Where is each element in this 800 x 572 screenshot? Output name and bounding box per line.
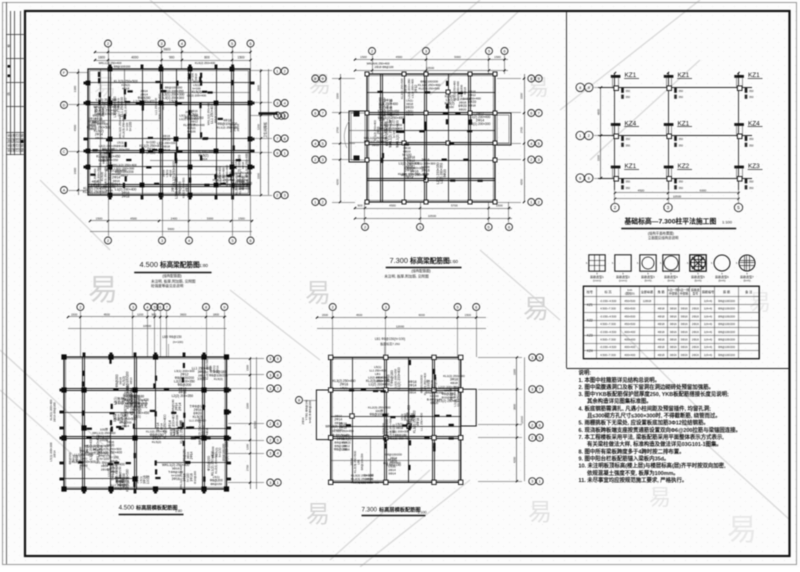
svg-text:350: 350 bbox=[626, 143, 631, 147]
svg-text:-0.030~4.500: -0.030~4.500 bbox=[600, 345, 617, 349]
svg-text:450×500: 450×500 bbox=[624, 307, 635, 311]
svg-text:3600: 3600 bbox=[180, 313, 187, 317]
svg-text:1:80: 1:80 bbox=[175, 509, 182, 513]
svg-text:WKL1(2) 250×400: WKL1(2) 250×400 bbox=[244, 153, 248, 178]
svg-text:5: 5 bbox=[154, 305, 156, 309]
svg-text:8: 8 bbox=[298, 398, 300, 402]
svg-text:6: 6 bbox=[314, 111, 316, 115]
svg-text:审定图号日期: 审定图号日期 bbox=[7, 144, 23, 148]
svg-text:1: 1 bbox=[277, 481, 279, 485]
svg-text:450×500: 450×500 bbox=[624, 299, 635, 303]
svg-text:5: 5 bbox=[231, 42, 233, 46]
svg-text:L1(2) 200×400: L1(2) 200×400 bbox=[187, 93, 206, 97]
svg-text:标高层模板配筋图: 标高层模板配筋图 bbox=[135, 503, 178, 511]
svg-text:1800: 1800 bbox=[213, 313, 220, 317]
svg-text:L2(2) 200×350: L2(2) 200×350 bbox=[225, 441, 229, 463]
svg-text:4200: 4200 bbox=[520, 178, 524, 185]
svg-text:Φ8@100/200: Φ8@100/200 bbox=[718, 299, 735, 303]
svg-text:2Φ16: 2Φ16 bbox=[692, 353, 699, 357]
svg-text:1(4×4): 1(4×4) bbox=[704, 353, 712, 357]
svg-text:易: 易 bbox=[528, 499, 552, 526]
svg-text:8. 图中所有梁板跨度多于4跨时按二排布置。: 8. 图中所有梁板跨度多于4跨时按二排布置。 bbox=[579, 447, 685, 455]
svg-text:4.500~7.300: 4.500~7.300 bbox=[600, 337, 616, 341]
svg-text:2Φ16: 2Φ16 bbox=[692, 345, 699, 349]
svg-text:Φ8@100/200: Φ8@100/200 bbox=[124, 408, 128, 427]
svg-text:3Φ18: 3Φ18 bbox=[162, 148, 170, 152]
svg-text:5: 5 bbox=[322, 142, 324, 146]
svg-text:12000: 12000 bbox=[396, 325, 405, 329]
svg-text:3: 3 bbox=[269, 357, 271, 361]
svg-text:2: 2 bbox=[284, 69, 286, 73]
svg-text:易: 易 bbox=[306, 501, 330, 528]
svg-text:Φ8@200: Φ8@200 bbox=[334, 447, 348, 451]
svg-text:4500: 4500 bbox=[396, 55, 403, 59]
svg-text:7: 7 bbox=[166, 305, 168, 309]
svg-text:WKL1(2) 250×400: WKL1(2) 250×400 bbox=[84, 451, 109, 455]
svg-text:KL5(2): KL5(2) bbox=[152, 440, 161, 444]
svg-text:3600: 3600 bbox=[512, 404, 516, 410]
svg-text:3Φ16: 3Φ16 bbox=[670, 330, 677, 334]
svg-text:4Φ18: 4Φ18 bbox=[658, 314, 665, 318]
svg-text:3. 图中YKB板配筋保护层厚度250, YKB板配筋搭接长: 3. 图中YKB板配筋保护层厚度250, YKB板配筋搭接长度见说明; bbox=[579, 390, 730, 398]
svg-text:箍 筋: 箍 筋 bbox=[723, 289, 730, 294]
svg-text:4500: 4500 bbox=[389, 204, 396, 208]
svg-text:3Φ16: 3Φ16 bbox=[681, 322, 688, 326]
svg-text:900: 900 bbox=[169, 56, 175, 60]
svg-text:9. 图中阳台栏板配筋锚入梁板内35d。: 9. 图中阳台栏板配筋锚入梁板内35d。 bbox=[579, 455, 670, 463]
svg-text:4: 4 bbox=[284, 101, 286, 105]
svg-text:5: 5 bbox=[538, 142, 540, 146]
svg-text:10500: 10500 bbox=[253, 421, 257, 429]
svg-text:A: A bbox=[63, 188, 66, 192]
svg-text:4Φ18: 4Φ18 bbox=[463, 87, 467, 95]
svg-text:350: 350 bbox=[679, 137, 684, 141]
svg-text:3Φ16: 3Φ16 bbox=[681, 314, 688, 318]
svg-text:350: 350 bbox=[679, 186, 684, 190]
svg-text:3: 3 bbox=[322, 158, 324, 162]
svg-text:易: 易 bbox=[305, 278, 331, 308]
svg-text:4Φ18: 4Φ18 bbox=[468, 104, 476, 108]
svg-text:未注明, 板厚,附加筋, 见附图: 未注明, 板厚,附加筋, 见附图 bbox=[384, 273, 429, 278]
svg-text:5700: 5700 bbox=[451, 204, 458, 208]
svg-text:400×400: 400×400 bbox=[624, 330, 635, 334]
svg-text:(m×n): (m×n) bbox=[619, 279, 627, 283]
svg-text:3Φ14: 3Φ14 bbox=[409, 391, 416, 395]
svg-text:4Φ18: 4Φ18 bbox=[375, 386, 383, 390]
svg-text:Φ8@100/200: Φ8@100/200 bbox=[718, 353, 735, 357]
column layout plan top-right bbox=[614, 73, 616, 190]
svg-text:3: 3 bbox=[419, 225, 421, 229]
svg-text:8: 8 bbox=[205, 305, 207, 309]
svg-text:(h=100): (h=100) bbox=[173, 340, 183, 344]
svg-text:9: 9 bbox=[276, 151, 278, 155]
svg-text:350: 350 bbox=[749, 180, 754, 184]
svg-text:3300: 3300 bbox=[597, 154, 601, 161]
svg-text:2Φ16: 2Φ16 bbox=[692, 330, 699, 334]
svg-text:5: 5 bbox=[277, 438, 279, 442]
svg-text:2Φ16: 2Φ16 bbox=[692, 337, 699, 341]
svg-text:350: 350 bbox=[626, 89, 631, 93]
svg-text:3: 3 bbox=[161, 239, 163, 243]
svg-text:1: 1 bbox=[284, 151, 286, 155]
svg-text:2Φ12: 2Φ12 bbox=[95, 136, 103, 140]
svg-text:4Φ18: 4Φ18 bbox=[658, 322, 665, 326]
svg-text:3: 3 bbox=[269, 373, 271, 377]
svg-text:KZ4: KZ4 bbox=[587, 349, 593, 353]
svg-text:7: 7 bbox=[276, 137, 278, 141]
svg-text:L1(2) 200×400: L1(2) 200×400 bbox=[123, 97, 127, 116]
right column partition bbox=[566, 11, 568, 368]
svg-text:350: 350 bbox=[749, 186, 754, 190]
svg-text:2: 2 bbox=[531, 436, 533, 440]
svg-text:4: 4 bbox=[181, 42, 183, 46]
svg-text:1500: 1500 bbox=[237, 56, 244, 60]
svg-text:柱号: 柱号 bbox=[587, 289, 593, 294]
svg-text:350: 350 bbox=[626, 186, 631, 190]
svg-text:4Φ18: 4Φ18 bbox=[658, 353, 665, 357]
svg-text:2Φ12: 2Φ12 bbox=[101, 158, 109, 162]
svg-text:4Φ18: 4Φ18 bbox=[658, 345, 665, 349]
svg-text:3600: 3600 bbox=[73, 167, 77, 174]
svg-text:2Φ16: 2Φ16 bbox=[692, 307, 699, 311]
svg-text:L2(2) 200×350: L2(2) 200×350 bbox=[172, 394, 194, 398]
svg-text:h=90 B:Φ8@200: h=90 B:Φ8@200 bbox=[308, 400, 312, 423]
svg-text:3: 3 bbox=[132, 305, 134, 309]
svg-text:易: 易 bbox=[94, 75, 116, 100]
svg-text:3Φ16: 3Φ16 bbox=[670, 353, 677, 357]
svg-text:6. 现浇板跨板端支座按贯通筋设置双向Φ6@200拉筋与梁锚: 6. 现浇板跨板端支座按贯通筋设置双向Φ6@200拉筋与梁锚固连接。 bbox=[579, 426, 741, 434]
svg-text:h=100: h=100 bbox=[129, 122, 133, 131]
svg-text:3300: 3300 bbox=[246, 403, 250, 409]
svg-text:KL1(2) 250×400: KL1(2) 250×400 bbox=[389, 436, 410, 440]
svg-text:C: C bbox=[63, 150, 66, 154]
svg-text:1(4×4): 1(4×4) bbox=[704, 345, 712, 349]
svg-text:3300: 3300 bbox=[336, 92, 340, 99]
svg-text:(圆柱D): (圆柱D) bbox=[625, 290, 635, 295]
svg-text:L1(2) 200×400: L1(2) 200×400 bbox=[397, 367, 401, 389]
svg-text:易: 易 bbox=[749, 290, 771, 315]
svg-text:易: 易 bbox=[88, 274, 118, 307]
svg-text:6Φ20: 6Φ20 bbox=[459, 107, 467, 111]
svg-text:KL1(2) 250×400: KL1(2) 250×400 bbox=[172, 161, 176, 185]
svg-text:4Φ18: 4Φ18 bbox=[245, 179, 249, 187]
svg-text:KZ2: KZ2 bbox=[587, 318, 593, 322]
svg-text:3Φ16: 3Φ16 bbox=[105, 189, 113, 193]
svg-text:6: 6 bbox=[475, 305, 477, 309]
svg-text:11. 未尽事宜均应按规范施工要求, 严格执行。: 11. 未尽事宜均应按规范施工要求, 严格执行。 bbox=[579, 476, 688, 484]
svg-text:3: 3 bbox=[531, 356, 533, 360]
svg-text:2Φ12: 2Φ12 bbox=[120, 173, 128, 177]
title strip bbox=[10, 11, 12, 155]
svg-text:5: 5 bbox=[231, 239, 233, 243]
svg-text:7: 7 bbox=[277, 387, 279, 391]
svg-text:8: 8 bbox=[314, 77, 316, 81]
svg-text:易: 易 bbox=[523, 294, 549, 324]
svg-text:其余构造详见图集标准图。: 其余构造详见图集标准图。 bbox=[587, 397, 652, 405]
plan4 bottom-middle 7.300 slab plan bbox=[329, 304, 336, 311]
svg-text:3Φ16: 3Φ16 bbox=[681, 307, 688, 311]
svg-text:2: 2 bbox=[269, 422, 271, 426]
svg-text:10500: 10500 bbox=[428, 214, 437, 218]
svg-text:350: 350 bbox=[626, 95, 631, 99]
svg-text:Φ10@200: Φ10@200 bbox=[193, 470, 197, 484]
svg-text:450×500: 450×500 bbox=[624, 322, 635, 326]
svg-text:标高层模板配筋图: 标高层模板配筋图 bbox=[378, 506, 421, 514]
svg-text:1(4×4): 1(4×4) bbox=[704, 330, 712, 334]
svg-text:(b×h): (b×h) bbox=[743, 279, 750, 283]
svg-text:KL3(2) 250×450: KL3(2) 250×450 bbox=[108, 149, 112, 170]
svg-text:10500: 10500 bbox=[673, 194, 682, 198]
svg-text:Φ8@100/200: Φ8@100/200 bbox=[360, 453, 364, 471]
svg-text:5: 5 bbox=[488, 225, 490, 229]
svg-text:1:80: 1:80 bbox=[199, 263, 208, 268]
svg-text:L5(1): L5(1) bbox=[133, 414, 140, 418]
svg-text:1: 1 bbox=[579, 134, 581, 138]
svg-text:L5(1): L5(1) bbox=[340, 386, 347, 390]
svg-text:LL1 250×400: LL1 250×400 bbox=[419, 412, 423, 430]
svg-text:2: 2 bbox=[531, 423, 533, 427]
svg-text:3: 3 bbox=[531, 388, 533, 392]
svg-text:中部筋: 中部筋 bbox=[669, 290, 678, 295]
svg-text:全部纵筋: 全部纵筋 bbox=[641, 289, 653, 294]
svg-text:1500: 1500 bbox=[360, 55, 367, 59]
svg-text:8: 8 bbox=[277, 373, 279, 377]
svg-text:h=100: h=100 bbox=[334, 428, 343, 432]
column section symbols bbox=[589, 255, 605, 271]
svg-text:6: 6 bbox=[277, 422, 279, 426]
svg-text:Φ8@100/200: Φ8@100/200 bbox=[718, 330, 735, 334]
svg-text:6: 6 bbox=[508, 225, 510, 229]
svg-text:型号: 型号 bbox=[692, 290, 698, 295]
svg-text:600: 600 bbox=[204, 56, 210, 60]
svg-text:6: 6 bbox=[159, 305, 161, 309]
svg-text:KZ1: KZ1 bbox=[678, 72, 690, 79]
svg-text:1(4×4): 1(4×4) bbox=[704, 337, 712, 341]
svg-text:1: 1 bbox=[530, 200, 532, 204]
svg-text:3Φ16: 3Φ16 bbox=[670, 314, 677, 318]
svg-text:2: 2 bbox=[276, 194, 278, 198]
svg-text:(结构配筋图): (结构配筋图) bbox=[162, 273, 181, 278]
svg-text:2: 2 bbox=[107, 42, 109, 46]
svg-text:KL5(2): KL5(2) bbox=[214, 377, 223, 381]
svg-text:350: 350 bbox=[679, 180, 684, 184]
svg-text:6Φ20: 6Φ20 bbox=[80, 463, 88, 467]
svg-text:4: 4 bbox=[188, 239, 190, 243]
svg-text:8: 8 bbox=[284, 137, 286, 141]
svg-text:审定图号日期: 审定图号日期 bbox=[7, 139, 23, 143]
svg-text:角 筋: 角 筋 bbox=[658, 289, 665, 294]
svg-text:4: 4 bbox=[530, 142, 532, 146]
svg-text:说明:: 说明: bbox=[579, 369, 592, 377]
svg-text:4800: 4800 bbox=[597, 108, 601, 115]
svg-text:8: 8 bbox=[530, 77, 532, 81]
svg-text:7: 7 bbox=[538, 111, 540, 115]
svg-text:2: 2 bbox=[269, 438, 271, 442]
svg-text:4. 板底钢筋需满扎, 凡遇小柱间距及预留插件, 均留孔洞;: 4. 板底钢筋需满扎, 凡遇小柱间距及预留插件, 均留孔洞; bbox=[579, 404, 712, 412]
svg-text:KL1(2) 250×400: KL1(2) 250×400 bbox=[183, 123, 205, 127]
svg-text:审定图号日期: 审定图号日期 bbox=[7, 149, 23, 153]
svg-text:6: 6 bbox=[503, 49, 505, 53]
svg-text:1500: 1500 bbox=[494, 55, 501, 59]
svg-text:10500: 10500 bbox=[143, 324, 152, 328]
svg-text:L5(1): L5(1) bbox=[403, 156, 410, 160]
svg-text:4Φ18: 4Φ18 bbox=[658, 307, 665, 311]
outer border bbox=[2, 2, 797, 4]
svg-text:2Φ14: 2Φ14 bbox=[178, 403, 182, 411]
svg-text:2700: 2700 bbox=[336, 126, 340, 133]
svg-text:7. 本工程楼板采用平法, 梁板配筋采用平面整体表示方式表示: 7. 本工程楼板采用平法, 梁板配筋采用平面整体表示方式表示, bbox=[579, 433, 725, 441]
svg-text:3Φ16: 3Φ16 bbox=[670, 307, 677, 311]
svg-text:400×400: 400×400 bbox=[624, 353, 635, 357]
svg-text:9: 9 bbox=[538, 77, 540, 81]
column schedule table bbox=[583, 286, 759, 359]
svg-text:2Φ14: 2Φ14 bbox=[53, 450, 57, 458]
svg-text:6: 6 bbox=[249, 42, 251, 46]
svg-text:1500: 1500 bbox=[238, 217, 245, 221]
svg-text:4200: 4200 bbox=[512, 457, 516, 463]
svg-text:核: 核 bbox=[7, 91, 10, 96]
svg-text:12Φ18: 12Φ18 bbox=[643, 299, 652, 303]
svg-text:3Φ16: 3Φ16 bbox=[172, 477, 180, 481]
svg-text:KL1(2) 250×400: KL1(2) 250×400 bbox=[163, 414, 167, 439]
svg-text:基础标高—7.300柱平法施工图: 基础标高—7.300柱平法施工图 bbox=[624, 217, 717, 226]
svg-text:2Φ14: 2Φ14 bbox=[301, 417, 305, 424]
svg-text:2: 2 bbox=[314, 158, 316, 162]
svg-text:4.500: 4.500 bbox=[119, 504, 135, 511]
svg-text:3Φ18: 3Φ18 bbox=[122, 195, 130, 199]
svg-text:3: 3 bbox=[269, 452, 271, 456]
svg-text:6Φ20: 6Φ20 bbox=[431, 401, 439, 405]
svg-text:易: 易 bbox=[727, 514, 757, 547]
svg-text:1(4×4): 1(4×4) bbox=[704, 322, 712, 326]
svg-text:6: 6 bbox=[579, 176, 581, 180]
svg-text:4200: 4200 bbox=[336, 178, 340, 185]
svg-text:L1(2) 200×400: L1(2) 200×400 bbox=[359, 481, 380, 485]
svg-text:9600: 9600 bbox=[168, 227, 175, 231]
svg-text:2: 2 bbox=[530, 158, 532, 162]
svg-text:KZ1: KZ1 bbox=[748, 72, 760, 79]
svg-text:备 注: 备 注 bbox=[745, 289, 752, 294]
svg-text:9: 9 bbox=[277, 357, 279, 361]
svg-text:4.500~7.300: 4.500~7.300 bbox=[600, 322, 616, 326]
svg-text:12000: 12000 bbox=[520, 416, 524, 424]
svg-text:1: 1 bbox=[539, 480, 541, 484]
svg-text:10. 未注明板顶标高(楼上层)与楼层标高(层)齐平时按双向: 10. 未注明板顶标高(楼上层)与楼层标高(层)齐平时按双向加密, bbox=[579, 462, 727, 470]
svg-text:6000: 6000 bbox=[700, 189, 707, 193]
svg-text:KZ1: KZ1 bbox=[625, 72, 637, 79]
svg-text:8: 8 bbox=[579, 86, 581, 90]
svg-text:6: 6 bbox=[249, 239, 251, 243]
svg-text:100厚: 100厚 bbox=[99, 437, 109, 442]
svg-text:1500: 1500 bbox=[71, 313, 78, 317]
svg-text:1500: 1500 bbox=[496, 204, 503, 208]
svg-text:350: 350 bbox=[626, 180, 631, 184]
svg-text:6: 6 bbox=[588, 176, 590, 180]
svg-text:100厚: 100厚 bbox=[197, 376, 207, 381]
svg-text:1200: 1200 bbox=[137, 313, 144, 317]
svg-text:2Φ14: 2Φ14 bbox=[190, 451, 194, 459]
svg-text:有关梁柱做法大样, 标准构造及做法详见03G101-1图集。: 有关梁柱做法大样, 标准构造及做法详见03G101-1图集。 bbox=[587, 440, 722, 448]
svg-text:3: 3 bbox=[425, 49, 427, 53]
svg-text:1500: 1500 bbox=[465, 313, 472, 317]
svg-text:4: 4 bbox=[146, 305, 148, 309]
svg-text:Φ8@100/200: Φ8@100/200 bbox=[718, 345, 735, 349]
plan2 top-middle 7.300 beam plan bbox=[369, 48, 376, 55]
svg-text:3Φ14: 3Φ14 bbox=[388, 471, 396, 475]
svg-text:2: 2 bbox=[322, 200, 324, 204]
svg-text:4.500~7.300: 4.500~7.300 bbox=[600, 353, 616, 357]
svg-text:Φ8@200: Φ8@200 bbox=[177, 383, 191, 387]
svg-text:350: 350 bbox=[749, 143, 754, 147]
svg-text:LB1 Φ8@150(h=100): LB1 Φ8@150(h=100) bbox=[375, 337, 406, 341]
svg-text:1600: 1600 bbox=[98, 56, 105, 60]
svg-text:审定图号日期: 审定图号日期 bbox=[7, 134, 23, 138]
svg-text:4Φ18: 4Φ18 bbox=[205, 428, 209, 436]
svg-text:6: 6 bbox=[539, 423, 541, 427]
svg-text:KZ1: KZ1 bbox=[625, 163, 637, 170]
svg-text:2. 图中梁腹遇洞口及板下留洞在洞边砌砖处预留加强筋。: 2. 图中梁腹遇洞口及板下留洞在洞边砌砖处预留加强筋。 bbox=[579, 383, 714, 391]
svg-text:350: 350 bbox=[749, 137, 754, 141]
svg-text:KL2(3) 250×500: KL2(3) 250×500 bbox=[83, 190, 107, 194]
svg-text:2Φ16: 2Φ16 bbox=[107, 173, 111, 181]
svg-text:3Φ16: 3Φ16 bbox=[406, 112, 414, 116]
svg-text:2700: 2700 bbox=[246, 465, 250, 471]
svg-text:2Φ18 Φ8@100: 2Φ18 Φ8@100 bbox=[375, 65, 394, 69]
svg-text:D: D bbox=[63, 103, 66, 107]
svg-text:WKL1(2) 250×400: WKL1(2) 250×400 bbox=[396, 120, 400, 147]
svg-text:350: 350 bbox=[626, 137, 631, 141]
svg-text:350: 350 bbox=[679, 143, 684, 147]
svg-text:10500: 10500 bbox=[426, 66, 435, 70]
svg-text:KZ3: KZ3 bbox=[587, 334, 593, 338]
svg-text:-0.030~4.500: -0.030~4.500 bbox=[600, 299, 617, 303]
svg-text:1500: 1500 bbox=[246, 365, 250, 371]
svg-text:900: 900 bbox=[357, 204, 362, 208]
svg-text:2400: 2400 bbox=[171, 217, 178, 221]
svg-text:350: 350 bbox=[749, 89, 754, 93]
svg-text:6: 6 bbox=[530, 111, 532, 115]
svg-text:1:60: 1:60 bbox=[449, 259, 458, 264]
svg-text:3: 3 bbox=[269, 481, 271, 485]
svg-text:h=100: h=100 bbox=[187, 129, 196, 133]
svg-text:1: 1 bbox=[276, 69, 278, 73]
svg-text:Φ8@100/200: Φ8@100/200 bbox=[718, 314, 735, 318]
svg-text:350: 350 bbox=[749, 95, 754, 99]
svg-text:3: 3 bbox=[385, 305, 387, 309]
svg-text:9: 9 bbox=[539, 356, 541, 360]
svg-text:4500: 4500 bbox=[104, 313, 111, 317]
svg-text:中部筋: 中部筋 bbox=[680, 290, 689, 295]
svg-text:KL2(3) 250×500: KL2(3) 250×500 bbox=[126, 469, 130, 492]
svg-text:4500: 4500 bbox=[638, 189, 645, 193]
svg-text:6000: 6000 bbox=[419, 313, 426, 317]
svg-text:(b×h): (b×h) bbox=[644, 279, 651, 283]
svg-text:7: 7 bbox=[322, 111, 324, 115]
svg-text:3: 3 bbox=[538, 158, 540, 162]
svg-text:400×400: 400×400 bbox=[624, 345, 635, 349]
svg-text:3Φ16: 3Φ16 bbox=[681, 330, 688, 334]
svg-text:Φ8@150: Φ8@150 bbox=[118, 466, 122, 479]
svg-text:5: 5 bbox=[457, 305, 459, 309]
svg-text:4.500~7.300: 4.500~7.300 bbox=[600, 307, 616, 311]
svg-text:350: 350 bbox=[679, 89, 684, 93]
svg-text:L1(2) 200×400: L1(2) 200×400 bbox=[179, 117, 199, 121]
svg-text:3Φ16: 3Φ16 bbox=[670, 345, 677, 349]
svg-text:3000: 3000 bbox=[207, 217, 214, 221]
svg-text:4500: 4500 bbox=[130, 217, 137, 221]
svg-text:3Φ16: 3Φ16 bbox=[681, 337, 688, 341]
svg-text:(b×h): (b×h) bbox=[667, 279, 674, 283]
